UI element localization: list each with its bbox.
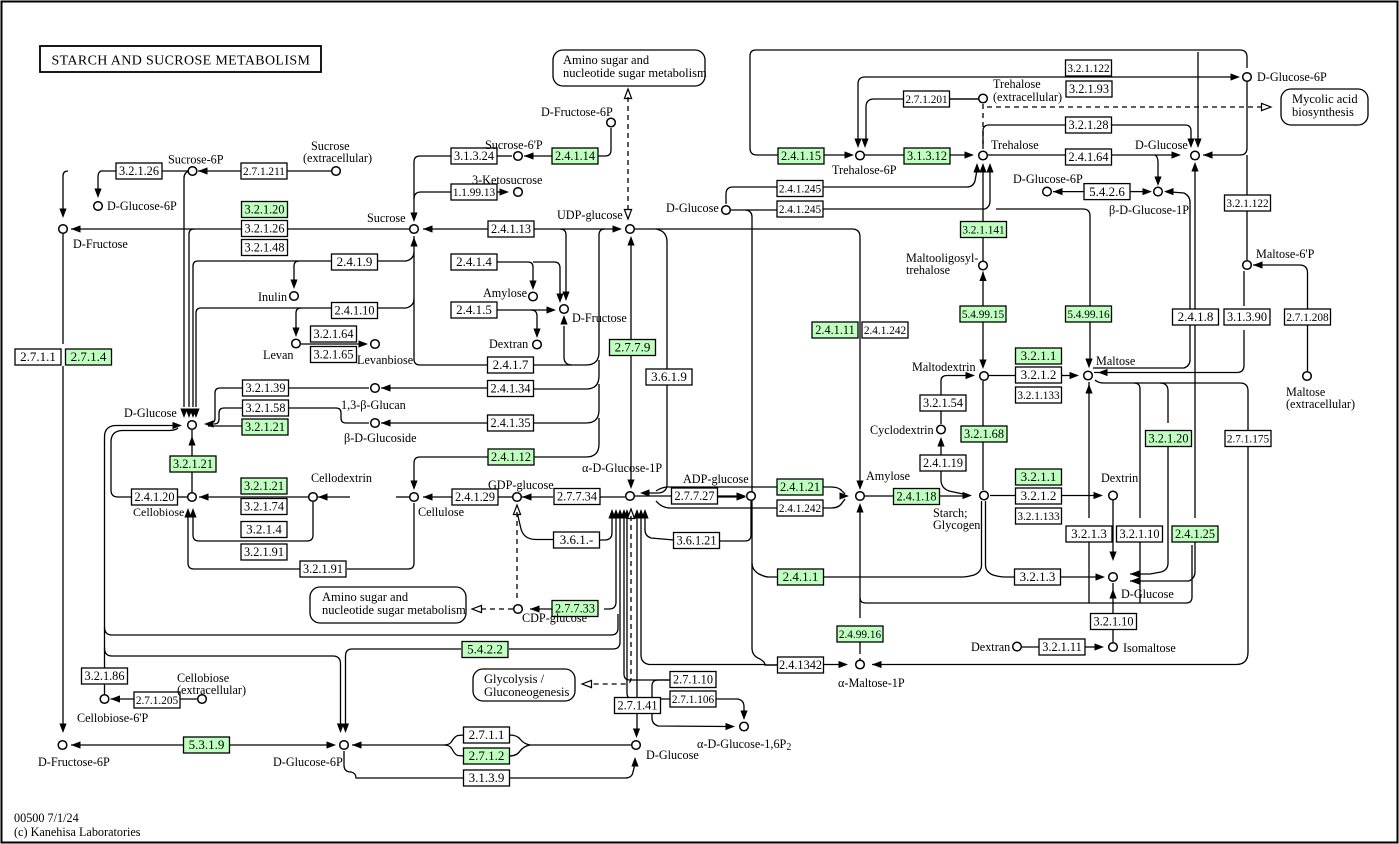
svg-text:(c) Kanehisa Laboratories: (c) Kanehisa Laboratories <box>14 825 141 839</box>
svg-text:3.2.1.65: 3.2.1.65 <box>314 348 354 362</box>
svg-text:Maltodextrin: Maltodextrin <box>912 360 976 374</box>
svg-text:Maltose-6'P: Maltose-6'P <box>1256 247 1315 261</box>
svg-text:2.4.1.1: 2.4.1.1 <box>783 569 819 584</box>
svg-text:D-Glucose-6P: D-Glucose-6P <box>1013 172 1083 186</box>
svg-text:3.2.1.11: 3.2.1.11 <box>1042 640 1082 654</box>
svg-text:2.4.1.242: 2.4.1.242 <box>864 325 907 337</box>
svg-text:1.1.99.13: 1.1.99.13 <box>453 187 496 199</box>
svg-text:00500 7/1/24: 00500 7/1/24 <box>14 811 79 825</box>
svg-text:2.4.1.29: 2.4.1.29 <box>455 490 495 504</box>
svg-text:(extracellular): (extracellular) <box>1286 397 1355 411</box>
svg-text:β-D-Glucoside: β-D-Glucoside <box>344 431 417 445</box>
svg-text:2.4.1.242: 2.4.1.242 <box>779 503 822 515</box>
svg-text:2.4.1.10: 2.4.1.10 <box>335 304 375 318</box>
svg-text:2.4.1342: 2.4.1342 <box>779 658 822 672</box>
svg-text:D-Glucose: D-Glucose <box>124 406 177 420</box>
svg-text:trehalose: trehalose <box>906 263 950 277</box>
svg-text:2.7.1.2: 2.7.1.2 <box>469 748 505 763</box>
svg-text:3.2.1.48: 3.2.1.48 <box>245 241 285 255</box>
svg-text:α-D-Glucose-1P: α-D-Glucose-1P <box>582 461 662 475</box>
svg-text:3.2.1.91: 3.2.1.91 <box>244 545 284 559</box>
svg-text:2.7.7.9: 2.7.7.9 <box>615 340 651 355</box>
svg-text:5.4.99.16: 5.4.99.16 <box>1067 309 1110 321</box>
svg-text:3.2.1.26: 3.2.1.26 <box>245 222 285 236</box>
svg-text:UDP-glucose: UDP-glucose <box>557 208 623 222</box>
svg-text:3.2.1.21: 3.2.1.21 <box>244 479 284 493</box>
svg-text:2.4.1.11: 2.4.1.11 <box>815 323 855 337</box>
svg-text:3.2.1.3: 3.2.1.3 <box>1071 526 1107 541</box>
svg-text:3.2.1.39: 3.2.1.39 <box>246 381 286 395</box>
svg-text:Amylose: Amylose <box>866 469 910 483</box>
svg-text:(extracellular): (extracellular) <box>303 151 372 165</box>
svg-text:3.6.1.9: 3.6.1.9 <box>651 369 687 384</box>
svg-text:(extracellular): (extracellular) <box>993 90 1062 104</box>
svg-text:α-D-Glucose-1,6P2: α-D-Glucose-1,6P2 <box>697 737 791 753</box>
svg-text:Sucrose-6P: Sucrose-6P <box>168 153 224 167</box>
svg-text:3.2.1.141: 3.2.1.141 <box>962 225 1004 237</box>
svg-text:5.4.2.2: 5.4.2.2 <box>467 642 503 657</box>
svg-text:Levanbiose: Levanbiose <box>357 353 413 367</box>
svg-text:2.4.1.34: 2.4.1.34 <box>491 382 531 396</box>
svg-text:2.7.1.4: 2.7.1.4 <box>71 349 107 364</box>
svg-text:3.2.1.133: 3.2.1.133 <box>1017 511 1060 523</box>
svg-text:2.4.1.20: 2.4.1.20 <box>135 490 175 504</box>
svg-text:2.7.1.10: 2.7.1.10 <box>673 673 713 687</box>
svg-text:2.4.1.5: 2.4.1.5 <box>456 302 492 317</box>
svg-text:3.2.1.4: 3.2.1.4 <box>246 522 282 537</box>
svg-text:nucleotide sugar metabolism: nucleotide sugar metabolism <box>322 603 466 617</box>
svg-text:CDP-glucose: CDP-glucose <box>522 611 587 625</box>
svg-text:3.2.1.3: 3.2.1.3 <box>1020 569 1056 584</box>
svg-text:Dextrin: Dextrin <box>1101 471 1138 485</box>
svg-text:2.4.99.16: 2.4.99.16 <box>839 629 882 641</box>
svg-text:3.6.1.21: 3.6.1.21 <box>677 534 717 548</box>
svg-text:biosynthesis: biosynthesis <box>1292 105 1354 119</box>
svg-text:D-Glucose-6P: D-Glucose-6P <box>1257 70 1327 84</box>
svg-text:3.2.1.68: 3.2.1.68 <box>964 427 1004 441</box>
svg-text:3.2.1.10: 3.2.1.10 <box>1120 527 1160 541</box>
svg-text:D-Glucose: D-Glucose <box>646 748 699 762</box>
svg-text:3.2.1.58: 3.2.1.58 <box>246 401 286 415</box>
svg-text:2.4.1.14: 2.4.1.14 <box>555 149 595 163</box>
svg-text:Sucrose-6'P: Sucrose-6'P <box>485 138 543 152</box>
svg-text:Mycolic acid: Mycolic acid <box>1292 92 1358 106</box>
svg-text:Levan: Levan <box>263 348 293 362</box>
svg-text:D-Fructose: D-Fructose <box>572 311 627 325</box>
svg-text:Isomaltose: Isomaltose <box>1123 641 1176 655</box>
svg-text:D-Glucose-6P: D-Glucose-6P <box>273 755 343 769</box>
svg-text:3.2.1.21: 3.2.1.21 <box>245 420 285 434</box>
svg-text:D-Glucose-6P: D-Glucose-6P <box>107 199 177 213</box>
svg-text:3.2.1.28: 3.2.1.28 <box>1069 118 1109 132</box>
svg-text:2.7.7.27: 2.7.7.27 <box>675 489 715 503</box>
svg-text:Maltose: Maltose <box>1096 354 1135 368</box>
svg-text:3.2.1.133: 3.2.1.133 <box>1017 390 1060 402</box>
svg-text:3.2.1.122: 3.2.1.122 <box>1067 63 1110 75</box>
svg-text:nucleotide sugar metabolism: nucleotide sugar metabolism <box>563 66 707 80</box>
svg-text:2.4.1.64: 2.4.1.64 <box>1069 150 1109 164</box>
svg-text:3.2.1.20: 3.2.1.20 <box>245 203 285 217</box>
svg-text:D-Fructose-6P: D-Fructose-6P <box>541 105 613 119</box>
svg-text:Amino sugar and: Amino sugar and <box>563 53 650 67</box>
svg-text:(extracellular): (extracellular) <box>177 683 246 697</box>
svg-text:Cellulose: Cellulose <box>418 505 464 519</box>
svg-text:2.4.1.12: 2.4.1.12 <box>491 450 531 464</box>
svg-text:2.7.1.1: 2.7.1.1 <box>469 727 505 742</box>
svg-text:D-Glucose: D-Glucose <box>1121 587 1174 601</box>
svg-text:Cellobiose-6'P: Cellobiose-6'P <box>77 711 148 725</box>
svg-text:Glycolysis /: Glycolysis / <box>484 672 545 686</box>
svg-text:2.4.1.19: 2.4.1.19 <box>923 456 963 470</box>
svg-text:Amylose: Amylose <box>483 286 527 300</box>
svg-text:2.4.1.7: 2.4.1.7 <box>493 357 529 372</box>
svg-text:2.7.1.175: 2.7.1.175 <box>1227 434 1270 446</box>
svg-text:2.4.1.13: 2.4.1.13 <box>491 222 531 236</box>
svg-text:2.4.1.8: 2.4.1.8 <box>1178 309 1214 324</box>
svg-text:2.7.1.205: 2.7.1.205 <box>136 695 179 707</box>
svg-text:3.2.1.86: 3.2.1.86 <box>85 669 125 683</box>
svg-text:2.7.1.1: 2.7.1.1 <box>20 349 56 364</box>
svg-text:2.7.1.201: 2.7.1.201 <box>905 94 947 106</box>
svg-text:β-D-Glucose-1P: β-D-Glucose-1P <box>1109 203 1189 217</box>
svg-text:2.7.1.106: 2.7.1.106 <box>672 694 715 706</box>
svg-text:2.4.1.21: 2.4.1.21 <box>780 480 820 494</box>
svg-text:3.2.1.1: 3.2.1.1 <box>1021 348 1057 363</box>
svg-text:Gluconeogenesis: Gluconeogenesis <box>484 685 570 699</box>
svg-text:3.1.3.12: 3.1.3.12 <box>907 149 947 163</box>
svg-text:2.4.1.18: 2.4.1.18 <box>897 490 937 504</box>
svg-text:ADP-glucose: ADP-glucose <box>683 472 749 486</box>
svg-text:3.2.1.26: 3.2.1.26 <box>119 164 159 178</box>
svg-text:3.2.1.54: 3.2.1.54 <box>923 396 963 410</box>
svg-text:2.4.1.9: 2.4.1.9 <box>337 254 373 269</box>
svg-text:D-Glucose: D-Glucose <box>666 201 719 215</box>
svg-text:D-Fructose-6P: D-Fructose-6P <box>38 755 110 769</box>
svg-text:5.4.99.15: 5.4.99.15 <box>962 309 1005 321</box>
svg-text:1,3-β-Glucan: 1,3-β-Glucan <box>341 398 406 412</box>
svg-text:3.2.1.2: 3.2.1.2 <box>1021 488 1057 503</box>
svg-text:2.4.1.35: 2.4.1.35 <box>491 416 531 430</box>
svg-text:Trehalose: Trehalose <box>993 77 1041 91</box>
svg-text:2.7.1.208: 2.7.1.208 <box>1286 312 1329 324</box>
svg-text:2.4.1.15: 2.4.1.15 <box>781 149 821 163</box>
svg-text:D-Glucose: D-Glucose <box>1135 138 1188 152</box>
svg-text:D-Fructose: D-Fructose <box>73 237 128 251</box>
svg-text:3.1.3.9: 3.1.3.9 <box>469 770 505 785</box>
svg-text:2.7.7.34: 2.7.7.34 <box>557 490 597 504</box>
svg-text:Amino sugar and: Amino sugar and <box>322 590 409 604</box>
svg-text:STARCH AND SUCROSE METABOLI: STARCH AND SUCROSE METABOLISM <box>52 54 311 69</box>
svg-text:Cyclodextrin: Cyclodextrin <box>870 423 934 437</box>
svg-text:3.2.1.21: 3.2.1.21 <box>173 457 213 471</box>
svg-text:3.6.1.-: 3.6.1.- <box>560 532 594 547</box>
svg-text:Dextran: Dextran <box>971 640 1010 654</box>
svg-text:5.4.2.6: 5.4.2.6 <box>1089 184 1125 199</box>
svg-text:2.7.1.41: 2.7.1.41 <box>618 699 658 713</box>
svg-text:α-Maltose-1P: α-Maltose-1P <box>838 676 905 690</box>
svg-text:3.2.1.122: 3.2.1.122 <box>1226 198 1269 210</box>
svg-text:Inulin: Inulin <box>258 290 287 304</box>
svg-text:2.4.1.4: 2.4.1.4 <box>456 254 492 269</box>
svg-text:2.4.1.25: 2.4.1.25 <box>1175 527 1215 541</box>
svg-text:Trehalose-6P: Trehalose-6P <box>832 163 897 177</box>
svg-text:3.2.1.2: 3.2.1.2 <box>1021 367 1057 382</box>
svg-text:3.2.1.64: 3.2.1.64 <box>314 327 354 341</box>
svg-text:Sucrose: Sucrose <box>367 211 406 225</box>
svg-text:3.2.1.1: 3.2.1.1 <box>1021 469 1057 484</box>
svg-text:Cellodextrin: Cellodextrin <box>311 471 372 485</box>
svg-text:Dextran: Dextran <box>489 337 528 351</box>
svg-text:3.2.1.91: 3.2.1.91 <box>303 562 343 576</box>
svg-text:2.4.1.245: 2.4.1.245 <box>779 184 822 196</box>
svg-text:Glycogen: Glycogen <box>933 518 980 532</box>
svg-text:3.2.1.20: 3.2.1.20 <box>1149 432 1189 446</box>
svg-text:3-Ketosucrose: 3-Ketosucrose <box>472 173 542 187</box>
svg-text:2.4.1.245: 2.4.1.245 <box>779 204 822 216</box>
svg-text:5.3.1.9: 5.3.1.9 <box>189 737 225 752</box>
svg-text:Cellobiose: Cellobiose <box>133 505 184 519</box>
svg-text:3.2.1.93: 3.2.1.93 <box>1069 82 1109 96</box>
svg-text:3.2.1.74: 3.2.1.74 <box>244 500 284 514</box>
svg-text:3.2.1.10: 3.2.1.10 <box>1094 615 1134 629</box>
svg-text:3.1.3.90: 3.1.3.90 <box>1227 310 1267 324</box>
svg-text:Trehalose: Trehalose <box>991 138 1039 152</box>
svg-text:GDP-glucose: GDP-glucose <box>488 478 554 492</box>
svg-text:2.7.1.211: 2.7.1.211 <box>243 166 285 178</box>
